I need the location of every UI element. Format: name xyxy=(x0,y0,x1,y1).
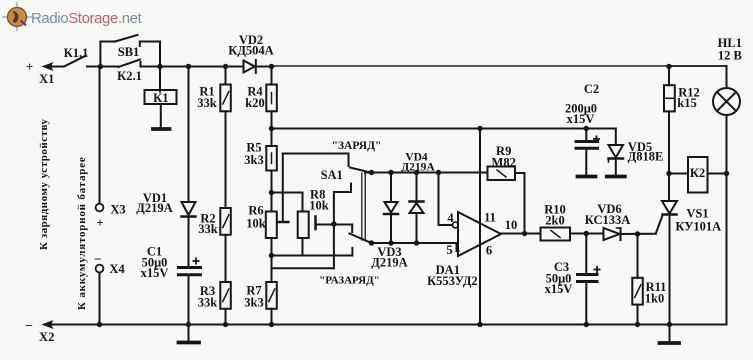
svg-text:КД504А: КД504А xyxy=(228,44,273,58)
svg-text:x15V: x15V xyxy=(141,266,169,280)
svg-text:Д219А: Д219А xyxy=(136,201,172,215)
svg-text:–: – xyxy=(94,251,102,265)
svg-text:C2: C2 xyxy=(584,82,599,96)
svg-text:КУ101А: КУ101А xyxy=(675,220,721,234)
svg-text:3k3: 3k3 xyxy=(244,153,263,167)
svg-text:К2: К2 xyxy=(690,166,705,180)
svg-text:x15V: x15V xyxy=(567,112,595,126)
svg-text:2k0: 2k0 xyxy=(545,214,564,228)
svg-text:10: 10 xyxy=(505,218,518,232)
svg-text:10k: 10k xyxy=(309,199,329,213)
svg-text:"РАЗАРЯД": "РАЗАРЯД" xyxy=(319,275,380,287)
svg-text:Д219А: Д219А xyxy=(401,162,435,174)
svg-text:6: 6 xyxy=(486,244,492,258)
svg-text:33k: 33k xyxy=(198,222,218,236)
svg-text:КС133А: КС133А xyxy=(585,213,631,227)
svg-text:К аккумуляторной батарее: К аккумуляторной батарее xyxy=(76,156,88,310)
svg-text:3k3: 3k3 xyxy=(244,296,263,310)
svg-text:Д818Е: Д818Е xyxy=(628,150,664,164)
svg-text:"ЗАРЯД": "ЗАРЯД" xyxy=(332,140,382,152)
svg-text:X4: X4 xyxy=(109,262,125,276)
svg-text:–: – xyxy=(25,318,33,332)
svg-text:11: 11 xyxy=(484,211,496,225)
svg-text:33k: 33k xyxy=(197,96,217,110)
svg-text:1k0: 1k0 xyxy=(645,292,664,306)
svg-text:k15: k15 xyxy=(677,96,696,110)
svg-text:k20: k20 xyxy=(245,96,264,110)
svg-text:5: 5 xyxy=(446,243,452,257)
svg-text:К1.1: К1.1 xyxy=(64,46,89,60)
svg-text:X1: X1 xyxy=(39,72,54,86)
svg-text:+: + xyxy=(96,216,103,230)
svg-text:К зарядному устройству: К зарядному устройству xyxy=(38,118,50,250)
svg-text:К553УД2: К553УД2 xyxy=(427,274,478,288)
svg-text:К2.1: К2.1 xyxy=(117,69,142,83)
svg-text:33k: 33k xyxy=(198,296,218,310)
svg-text:VS1: VS1 xyxy=(686,207,708,221)
svg-text:4: 4 xyxy=(447,211,454,225)
svg-text:M82: M82 xyxy=(492,156,516,170)
svg-text:X3: X3 xyxy=(110,203,125,217)
svg-text:10k: 10k xyxy=(246,217,266,231)
svg-text:X2: X2 xyxy=(39,330,54,344)
svg-text:+: + xyxy=(26,60,33,74)
svg-text:RadioStorage.net: RadioStorage.net xyxy=(31,10,143,27)
svg-text:К1: К1 xyxy=(153,91,168,105)
svg-text:x15V: x15V xyxy=(545,282,573,296)
svg-text:R6: R6 xyxy=(248,204,263,218)
svg-text:SA1: SA1 xyxy=(321,168,343,182)
svg-text:Д219А: Д219А xyxy=(371,256,407,270)
svg-text:SB1: SB1 xyxy=(118,45,140,59)
svg-text:12 В: 12 В xyxy=(718,49,742,63)
